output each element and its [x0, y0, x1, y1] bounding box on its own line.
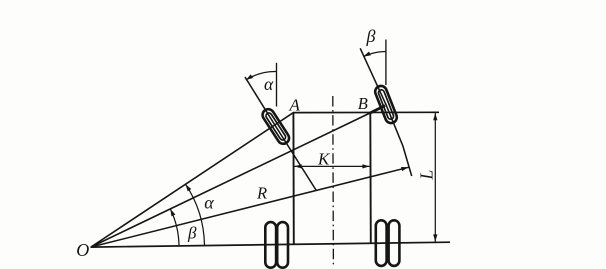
left wheel vertical reference line [276, 63, 278, 107]
rear axle line through O [91, 242, 451, 247]
line O to A (inner wheel axis) [91, 113, 293, 247]
right wheel vertical reference line [385, 40, 387, 86]
left wheel plane line [245, 77, 316, 191]
front axle line through A and B [293, 111, 439, 113]
front right wheel (steered) [374, 84, 399, 125]
svg-text:L: L [417, 170, 437, 181]
vehicle body right edge [369, 113, 372, 244]
svg-text:β: β [187, 224, 197, 243]
line O to B (outer wheel axis) [91, 113, 370, 247]
alpha angle arc at O [186, 184, 205, 245]
axle stub from B to right wheel center [370, 106, 385, 113]
vehicle body left edge [292, 113, 294, 245]
svg-text:R: R [256, 184, 267, 203]
K dimension line with arrows [295, 165, 370, 167]
rear right dual wheel [376, 220, 400, 266]
L dimension line with arrows [434, 113, 436, 242]
alpha angle arc at left wheel [246, 71, 277, 80]
svg-text:K: K [317, 149, 331, 168]
svg-text:A: A [289, 96, 301, 115]
svg-text:O: O [76, 240, 89, 260]
turning radius line R from O with arrow [91, 167, 409, 247]
svg-text:B: B [358, 94, 368, 113]
svg-text:α: α [204, 192, 214, 212]
beta angle arc at right wheel [363, 52, 385, 57]
vehicle centerline (dash-dot) [332, 96, 335, 268]
svg-text:β: β [366, 26, 376, 46]
right wheel plane line [360, 48, 412, 176]
rear left dual wheel [265, 222, 288, 268]
svg-text:α: α [264, 74, 274, 94]
beta angle arc at O [170, 209, 179, 246]
front left wheel (steered) [260, 107, 291, 146]
